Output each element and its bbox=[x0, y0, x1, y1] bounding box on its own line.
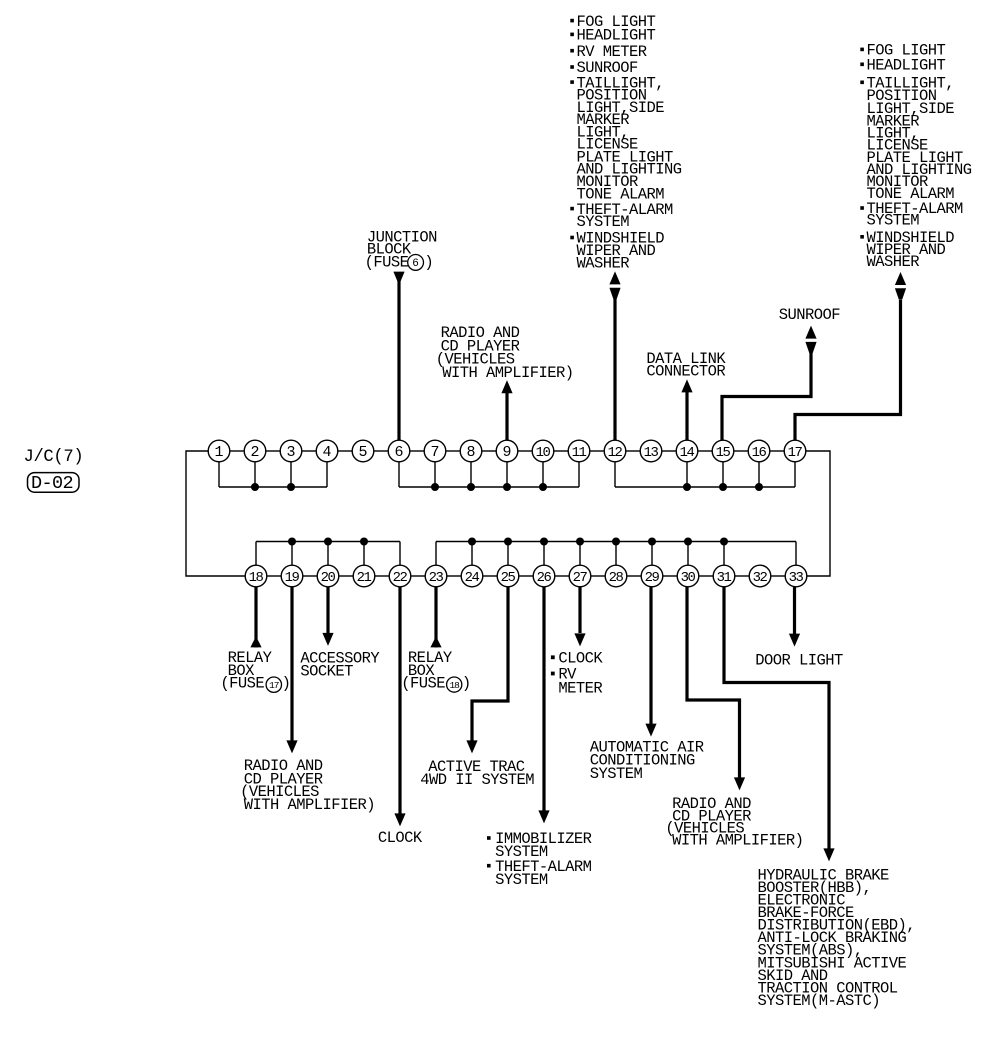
arrow to active trac system bbox=[466, 740, 477, 753]
svg-text:9: 9 bbox=[502, 444, 511, 461]
wire from pin 27 down to clock and RV meter bbox=[578, 587, 581, 633]
label RELAY BOX (FUSE 18) bbox=[401, 649, 470, 693]
label RADIO AND CD PLAYER (VEHICLES WITH AMPLIFIER) pin 30 bbox=[665, 795, 803, 849]
pin 7 bbox=[424, 440, 446, 462]
svg-text:20: 20 bbox=[321, 570, 336, 586]
svg-text:14: 14 bbox=[680, 445, 695, 461]
label AUTOMATIC AIR CONDITIONING SYSTEM bbox=[590, 739, 704, 783]
svg-text:18: 18 bbox=[449, 680, 460, 691]
label HYDRAULIC BRAKE BOOSTER (HBB) EBD ABS M-ASTC bbox=[758, 866, 916, 1010]
pin 2 bbox=[244, 440, 266, 462]
label CLOCK / RV METER bbox=[551, 650, 604, 698]
pin 3 bbox=[280, 440, 302, 462]
pin 16 bbox=[748, 440, 770, 462]
pin 33 bbox=[785, 565, 807, 587]
wire left rail from pin 1 to pin 18 bbox=[186, 451, 245, 576]
pin 20 bbox=[317, 565, 339, 587]
label DOOR LIGHT bbox=[755, 652, 843, 670]
wire from pin 23 down to relay box 2 bbox=[434, 587, 437, 648]
svg-text:22: 22 bbox=[393, 570, 408, 586]
pin 28 bbox=[605, 565, 627, 587]
wire from pin 29 down to automatic air conditioning bbox=[649, 587, 652, 724]
pin 32 bbox=[749, 565, 771, 587]
wire bus joining pins 1-4 with junction dots bbox=[219, 462, 327, 491]
arrow to accessory socket bbox=[322, 633, 333, 646]
wire from pin 17 up to lighting systems list 2 bbox=[795, 300, 901, 440]
svg-text:17: 17 bbox=[788, 445, 803, 461]
label ACTIVE TRAC 4WD II SYSTEM bbox=[420, 758, 534, 789]
wire from pin 18 down to relay box bbox=[254, 587, 257, 648]
svg-text:RV METER: RV METER bbox=[577, 43, 647, 61]
double arrow to lighting systems list 2 bbox=[895, 272, 906, 300]
label ACCESSORY SOCKET bbox=[300, 649, 380, 680]
svg-text:SYSTEM: SYSTEM bbox=[867, 212, 920, 230]
pin 17 bbox=[784, 440, 806, 462]
arrow into pin 6 from junction block bbox=[393, 272, 404, 282]
svg-text:6: 6 bbox=[394, 444, 403, 461]
svg-text:WASHER: WASHER bbox=[867, 253, 920, 271]
svg-text:11: 11 bbox=[572, 445, 587, 461]
svg-text:(FUSE: (FUSE bbox=[401, 674, 445, 692]
double arrow to lighting systems list bbox=[609, 271, 620, 299]
wire from pin 15 up to sunroof bbox=[722, 352, 811, 440]
pin 23 bbox=[425, 565, 447, 587]
wire from pin 6 up to junction block bbox=[397, 273, 400, 440]
pin 31 bbox=[713, 565, 735, 587]
svg-text:26: 26 bbox=[537, 570, 552, 586]
svg-text:(FUSE: (FUSE bbox=[365, 254, 409, 272]
pin 21 bbox=[353, 565, 375, 587]
svg-text:13: 13 bbox=[644, 445, 659, 461]
label list of systems for pin 12 (fog light etc.) bbox=[570, 13, 681, 273]
svg-text:4: 4 bbox=[322, 444, 331, 461]
svg-text:HEADLIGHT: HEADLIGHT bbox=[577, 27, 656, 45]
svg-text:WITH AMPLIFIER): WITH AMPLIFIER) bbox=[442, 364, 573, 382]
svg-text:DOOR LIGHT: DOOR LIGHT bbox=[755, 652, 843, 670]
wire from pin 12 up to lighting systems list bbox=[613, 299, 616, 440]
svg-text:WASHER: WASHER bbox=[577, 254, 630, 272]
wire from pin 26 down to immobilizer system bbox=[542, 587, 545, 818]
connector name label J/C (7) bbox=[24, 448, 84, 467]
svg-text:SYSTEM(M-ASTC): SYSTEM(M-ASTC) bbox=[758, 992, 881, 1010]
wire from pin 19 down to radio and CD player bbox=[290, 587, 293, 748]
svg-text:6: 6 bbox=[412, 258, 419, 270]
svg-text:24: 24 bbox=[465, 570, 480, 586]
wire from pin 25 down to active trac system bbox=[472, 587, 508, 748]
svg-text:1: 1 bbox=[214, 444, 223, 461]
label IMMOBILIZER SYSTEM / THEFT-ALARM SYSTEM bbox=[487, 830, 592, 889]
pin 27 bbox=[569, 565, 591, 587]
arrow to radio and CD player (top) bbox=[501, 380, 512, 393]
svg-text:10: 10 bbox=[536, 445, 551, 461]
svg-text:27: 27 bbox=[573, 570, 588, 586]
pin 25 bbox=[497, 565, 519, 587]
svg-text:21: 21 bbox=[357, 570, 372, 586]
svg-text:15: 15 bbox=[716, 445, 731, 461]
svg-text:18: 18 bbox=[249, 570, 264, 586]
pin 15 bbox=[712, 440, 734, 462]
arrow to hydraulic brake booster bbox=[823, 848, 834, 861]
pin 6 bbox=[388, 440, 410, 462]
svg-text:17: 17 bbox=[269, 680, 279, 691]
label CLOCK bbox=[378, 829, 423, 847]
pin 14 bbox=[676, 440, 698, 462]
svg-text:5: 5 bbox=[358, 444, 367, 461]
svg-text:SOCKET: SOCKET bbox=[300, 663, 353, 681]
svg-text:CLOCK: CLOCK bbox=[378, 829, 423, 847]
svg-text:): ) bbox=[462, 674, 471, 692]
svg-text:16: 16 bbox=[752, 445, 767, 461]
wire from pin 33 down to door light bbox=[793, 587, 796, 641]
pin 10 bbox=[532, 440, 554, 462]
label DATA LINK CONNECTOR bbox=[646, 350, 726, 381]
pin 29 bbox=[641, 565, 663, 587]
svg-text:30: 30 bbox=[681, 570, 696, 586]
arrow into pin 23 from relay box 2 bbox=[430, 636, 441, 647]
svg-text:WITH AMPLIFIER): WITH AMPLIFIER) bbox=[672, 831, 803, 849]
label RELAY BOX (FUSE 17) bbox=[220, 649, 290, 693]
wire from pin 31 down to hydraulic brake booster bbox=[724, 587, 829, 856]
wire from pin 30 down to radio and CD player 2 bbox=[687, 587, 740, 785]
pin 24 bbox=[461, 565, 483, 587]
svg-text:25: 25 bbox=[501, 570, 516, 586]
svg-text:33: 33 bbox=[789, 570, 804, 586]
arrow to door light bbox=[789, 634, 800, 647]
arrow to radio and CD player (pin 30) bbox=[734, 777, 745, 790]
svg-text:J/C(7): J/C(7) bbox=[24, 448, 84, 467]
pin 5 bbox=[352, 440, 374, 462]
svg-text:29: 29 bbox=[645, 570, 660, 586]
svg-text:12: 12 bbox=[608, 445, 623, 461]
pin 12 bbox=[604, 440, 626, 462]
svg-text:METER: METER bbox=[558, 679, 602, 697]
wire bus joining pins 12,14-17 with junction dots bbox=[615, 462, 795, 491]
svg-text:WITH AMPLIFIER): WITH AMPLIFIER) bbox=[244, 796, 375, 814]
wire bus joining pins 23-31,33 with junction dots bbox=[436, 538, 796, 566]
pin 11 bbox=[568, 440, 590, 462]
arrow to clock bbox=[394, 813, 405, 826]
wire bus joining pins 18-22 with junction dots bbox=[256, 538, 400, 566]
label SUNROOF bbox=[779, 306, 841, 324]
label JUNCTION BLOCK (FUSE 6) bbox=[365, 229, 438, 272]
svg-text:): ) bbox=[424, 254, 433, 272]
svg-text:SYSTEM: SYSTEM bbox=[577, 213, 630, 231]
svg-text:4WD II SYSTEM: 4WD II SYSTEM bbox=[420, 771, 534, 789]
svg-text:8: 8 bbox=[466, 444, 475, 461]
pin 22 bbox=[389, 565, 411, 587]
svg-text:SUNROOF: SUNROOF bbox=[779, 306, 841, 324]
pin 1 bbox=[208, 440, 230, 462]
label RADIO AND CD PLAYER (VEHICLES WITH AMPLIFIER) pin 19 bbox=[240, 757, 375, 814]
pin 4 bbox=[316, 440, 338, 462]
arrow to immobilizer system bbox=[538, 810, 549, 823]
wire from pin 14 up to data link connector bbox=[685, 392, 688, 440]
wire from pin 9 up to radio and CD player bbox=[505, 392, 508, 440]
pin 13 bbox=[640, 440, 662, 462]
arrow to clock and RV meter bbox=[574, 633, 585, 646]
svg-text:32: 32 bbox=[753, 570, 768, 586]
pin 26 bbox=[533, 565, 555, 587]
wire links between pins 1-17 bbox=[230, 450, 784, 452]
pin 8 bbox=[460, 440, 482, 462]
arrow to radio and CD player (pin 19) bbox=[286, 740, 297, 753]
pin 30 bbox=[677, 565, 699, 587]
pin 18 bbox=[245, 565, 267, 587]
label RADIO AND CD PLAYER (VEHICLES WITH AMPLIFIER) top bbox=[436, 324, 574, 382]
arrow to automatic air conditioning bbox=[645, 724, 656, 737]
svg-text:2: 2 bbox=[250, 444, 259, 461]
svg-text:31: 31 bbox=[717, 570, 732, 586]
svg-text:SYSTEM: SYSTEM bbox=[590, 765, 643, 783]
pin 19 bbox=[281, 565, 303, 587]
svg-text:19: 19 bbox=[285, 570, 300, 586]
arrow into pin 18 from relay box bbox=[250, 636, 261, 647]
pin 9 bbox=[496, 440, 518, 462]
svg-text:): ) bbox=[282, 675, 291, 693]
connector code box D-02 bbox=[28, 473, 80, 495]
wire right rail from pin 17 to pin 33 bbox=[806, 451, 830, 576]
svg-text:28: 28 bbox=[609, 570, 624, 586]
svg-text:SYSTEM: SYSTEM bbox=[495, 871, 548, 889]
svg-text:7: 7 bbox=[430, 444, 439, 461]
wire from pin 22 down to clock bbox=[398, 587, 401, 821]
wire links between pins 18-33 bbox=[267, 575, 785, 577]
arrow to data link connector bbox=[681, 379, 692, 392]
double arrow to sunroof bbox=[805, 326, 816, 354]
label list of systems for pin 17 (fog light etc.) bbox=[860, 42, 971, 271]
svg-text:CONNECTOR: CONNECTOR bbox=[646, 362, 725, 380]
svg-text:23: 23 bbox=[429, 570, 444, 586]
svg-text:D-02: D-02 bbox=[31, 473, 73, 494]
svg-text:3: 3 bbox=[286, 444, 295, 461]
wire bus joining pins 6-11 with junction dots bbox=[399, 462, 579, 491]
svg-text:(FUSE: (FUSE bbox=[220, 675, 264, 693]
wire from pin 20 down to accessory socket bbox=[326, 587, 329, 641]
svg-text:HEADLIGHT: HEADLIGHT bbox=[867, 57, 946, 75]
